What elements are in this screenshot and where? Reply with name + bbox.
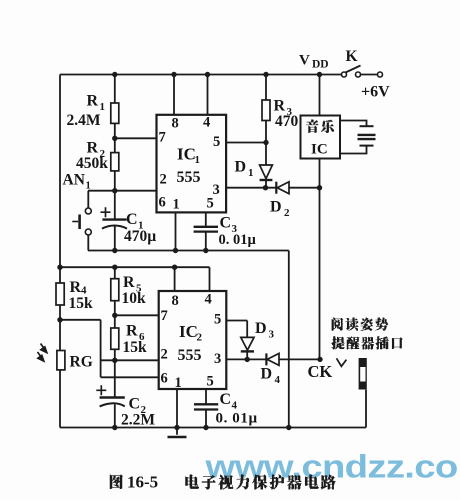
svg-text:2: 2 [161, 347, 168, 363]
svg-text:8: 8 [172, 293, 179, 309]
svg-text:7: 7 [161, 308, 168, 324]
svg-text:R: R [87, 93, 99, 110]
svg-text:1: 1 [248, 167, 254, 179]
svg-text:16-5: 16-5 [127, 473, 158, 492]
svg-text:4: 4 [275, 374, 281, 386]
svg-text:2.4M: 2.4M [67, 112, 101, 129]
svg-text:RG: RG [70, 354, 93, 371]
svg-text:5: 5 [213, 134, 220, 150]
svg-text:1: 1 [195, 154, 201, 166]
svg-text:CK: CK [308, 362, 333, 381]
svg-text:R: R [87, 140, 99, 157]
svg-text:R: R [126, 323, 138, 340]
svg-text:DD: DD [312, 59, 329, 71]
svg-text:R: R [274, 98, 286, 115]
svg-text:5: 5 [207, 196, 214, 212]
svg-text:C: C [126, 211, 138, 228]
svg-text:6: 6 [161, 371, 168, 387]
svg-text:D: D [261, 366, 273, 383]
svg-text:555: 555 [178, 347, 202, 364]
svg-text:470: 470 [275, 113, 299, 130]
svg-text:IC: IC [179, 322, 198, 341]
svg-text:R: R [70, 279, 82, 296]
svg-text:7: 7 [159, 130, 166, 146]
svg-text:3: 3 [269, 329, 275, 341]
svg-text:1: 1 [175, 375, 182, 391]
svg-text:C: C [220, 391, 232, 408]
svg-text:450k: 450k [76, 155, 108, 172]
svg-text:15k: 15k [69, 295, 94, 312]
svg-text:IC: IC [177, 145, 196, 164]
svg-text:C: C [129, 396, 141, 413]
svg-text:10k: 10k [122, 290, 147, 307]
svg-text:AN: AN [63, 172, 85, 189]
svg-text:8: 8 [172, 116, 179, 132]
svg-text:1: 1 [86, 181, 91, 192]
svg-text:D: D [270, 199, 282, 216]
svg-text:1: 1 [173, 197, 180, 213]
svg-text:R: R [123, 274, 135, 291]
svg-text:V: V [299, 53, 310, 69]
svg-text:555: 555 [177, 169, 201, 186]
svg-text:15k: 15k [123, 339, 148, 356]
svg-text:4: 4 [203, 115, 210, 131]
svg-text:5: 5 [207, 374, 214, 390]
svg-text:D: D [235, 159, 247, 176]
svg-text:2: 2 [160, 172, 167, 188]
svg-text:C: C [220, 215, 232, 232]
svg-text:0. 01µ: 0. 01µ [216, 411, 258, 427]
svg-text:D: D [255, 320, 267, 337]
svg-text:2.2M: 2.2M [121, 412, 155, 429]
svg-text:0. 01µ: 0. 01µ [219, 232, 257, 248]
svg-text:2: 2 [197, 332, 203, 344]
svg-text:IC: IC [311, 142, 328, 158]
svg-text:470µ: 470µ [124, 228, 156, 245]
svg-text:+6V: +6V [361, 84, 390, 101]
svg-text:4: 4 [205, 292, 212, 308]
svg-text:2: 2 [284, 207, 290, 219]
svg-text:K: K [346, 48, 358, 65]
svg-text:3: 3 [214, 351, 221, 367]
svg-text:6: 6 [159, 195, 166, 211]
svg-text:5: 5 [214, 312, 221, 328]
